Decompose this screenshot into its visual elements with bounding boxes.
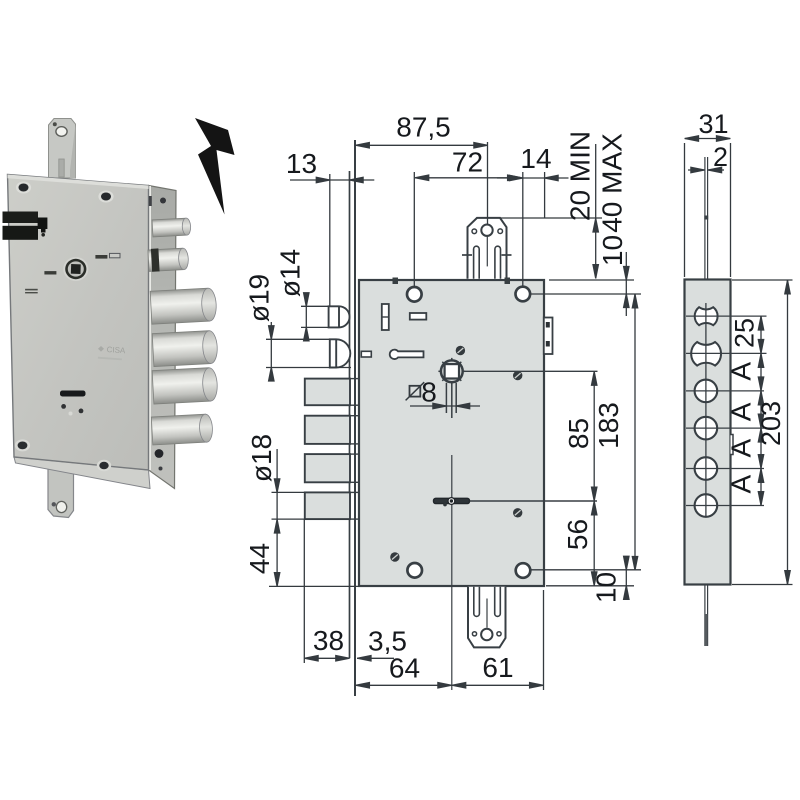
dim 31 line (685, 138, 731, 140)
extension bottom hole centreline (531, 569, 641, 571)
bottom tab centerline (486, 599, 488, 628)
photo corner screw holes (15, 182, 114, 472)
deviator bolt 1 (305, 379, 350, 406)
photo keyhole (60, 391, 86, 397)
extension body right edge (544, 172, 546, 218)
svg-text:203: 203 (756, 401, 786, 446)
photo deadbolt pin 2 (152, 330, 218, 366)
dim 10 bottom line (625, 556, 627, 600)
svg-text:40 MAX: 40 MAX (597, 133, 628, 233)
photo latch bolt 1 (152, 218, 191, 237)
svg-text:ø14: ø14 (275, 249, 306, 297)
extension top hole centreline (530, 293, 641, 295)
svg-text:87,5: 87,5 (396, 112, 451, 143)
side faceplate below body (704, 585, 706, 647)
svg-text:72: 72 (452, 147, 483, 178)
dim 8 line (410, 405, 480, 407)
svg-text:64: 64 (389, 653, 420, 684)
dim 13 line (290, 179, 374, 181)
svg-text:8: 8 (421, 377, 437, 408)
svg-text:61: 61 (482, 652, 513, 683)
dim 20min/40max line (595, 144, 597, 279)
bottom tab small holes (472, 632, 476, 636)
latch D-bolt lower (dia 19) (330, 339, 351, 367)
latch D-bolt upper (dia 14) (329, 306, 350, 327)
side hole 2 (latch, barrel shape) (691, 342, 721, 366)
photo side face details (155, 449, 164, 458)
dim 203 line (787, 280, 789, 585)
svg-text:ø18: ø18 (246, 434, 277, 482)
follower ring (441, 360, 463, 382)
side hole 5 (695, 457, 718, 480)
photo of lock (3, 119, 219, 518)
svg-text:14: 14 (520, 143, 551, 174)
dim 87,5 line (355, 144, 488, 146)
extension body top edge (549, 279, 634, 281)
faceplate outer line (354, 140, 356, 696)
svg-text:20 MIN: 20 MIN (564, 131, 595, 221)
svg-text:25: 25 (730, 318, 760, 348)
dim 10 top line (625, 252, 627, 316)
photo deadbolt pin 4 (151, 414, 213, 445)
bolt guide lines across faceplate (350, 379, 359, 519)
front view drawing (305, 140, 598, 696)
extension bolt left edge down (303, 519, 305, 663)
photo bottom tab (48, 469, 74, 518)
side notch on right edge (731, 435, 734, 455)
lightning bolt symbol (195, 118, 235, 215)
dim 72 line (415, 177, 522, 179)
svg-text:A: A (726, 475, 757, 494)
leader 3,5 (357, 657, 394, 659)
screw head upper (456, 346, 465, 355)
top tab centerline (486, 236, 488, 266)
lock body plate (359, 280, 544, 586)
svg-text:31: 31 (698, 109, 728, 139)
dim 64/61 line (355, 684, 543, 686)
follower square spindle hole (445, 364, 459, 378)
photo deadbolt pin 1 (150, 288, 217, 324)
spindle shaft lines below follower (446, 383, 456, 418)
side latch keeper on right edge (544, 318, 553, 355)
dim dia19 line (270, 322, 272, 381)
faceplate inner line (349, 171, 351, 658)
dim 25 and A chain line (760, 316, 762, 505)
top tab slots (474, 246, 480, 279)
corner hole top-right (516, 287, 531, 302)
svg-text:56: 56 (562, 519, 593, 550)
svg-text:A: A (726, 362, 757, 381)
svg-text:13: 13 (286, 148, 317, 179)
dim 183 line (634, 294, 636, 570)
dim 85/56 line (593, 371, 595, 586)
extension body bottom left (269, 585, 359, 587)
top tab min-position ticks (462, 254, 472, 256)
svg-text:A: A (726, 438, 757, 457)
extension latch left edge (329, 174, 331, 306)
dimensions (266, 136, 793, 690)
svg-text:38: 38 (313, 625, 344, 656)
svg-text:CISA: CISA (106, 345, 126, 355)
screw head bottom-left (390, 552, 399, 561)
vertical slot part (382, 304, 389, 330)
bottom tab slots (474, 587, 480, 617)
extension top-left hole (413, 172, 415, 287)
top mounting tab of photo (49, 119, 76, 179)
small slot near left edge (361, 351, 371, 357)
photo latch bolt 2 (148, 247, 189, 272)
dim dia18 and 44 line (276, 449, 278, 586)
double-bit key hub (434, 498, 470, 503)
deviator bolt 2 (305, 416, 350, 444)
cylinder axis extension (487, 142, 489, 225)
follower centreline to right (463, 370, 598, 372)
side hole 4 (695, 417, 718, 440)
small rectangular slot (410, 313, 427, 320)
dim 38 line (304, 657, 349, 659)
photo bottom edge face (14, 457, 150, 489)
svg-text:10: 10 (591, 572, 622, 603)
svg-text:10: 10 (597, 235, 628, 266)
extension tab top level (500, 217, 602, 219)
side faceplate above body (704, 157, 706, 280)
top tab screw hole (481, 225, 492, 236)
svg-text:44: 44 (244, 543, 275, 574)
side holes horizontal centrelines (686, 316, 767, 505)
svg-text:183: 183 (593, 402, 624, 449)
photo body side face (149, 186, 177, 489)
photo follower hub (63, 257, 88, 281)
notches on body top edge (393, 278, 399, 285)
photo deadbolt pin 3 (152, 367, 218, 404)
top tab small holes (472, 229, 477, 234)
top strike tab (468, 218, 507, 279)
svg-text:ø19: ø19 (244, 274, 275, 322)
side hole 6 (695, 494, 718, 517)
dimension texts (244, 109, 787, 683)
screw head right-mid (513, 371, 522, 380)
key slot part (390, 350, 424, 359)
photo CISA logo (98, 346, 104, 352)
photo black plates on left (3, 212, 39, 224)
square-8 symbol (410, 386, 421, 397)
bottom strike tab (468, 587, 506, 648)
photo front face (8, 175, 149, 471)
svg-text:85: 85 (563, 418, 594, 449)
corner hole top-left (407, 287, 422, 302)
extension body bottom right (546, 585, 634, 587)
extension body right edge down (543, 590, 545, 690)
side hole 1 (latch, barrel shape) (695, 307, 718, 325)
corner hole bottom-right (516, 563, 531, 578)
key hub centreline to right (470, 500, 597, 502)
extension top-right hole (522, 172, 524, 286)
photo small stamped marks (44, 271, 56, 274)
side hole 3 (695, 380, 718, 403)
svg-text:2: 2 (713, 142, 728, 172)
dim dia14 line (305, 294, 307, 340)
svg-text:A: A (726, 402, 757, 421)
dim 14 line (497, 177, 569, 179)
deviator bolt 4 (305, 492, 350, 519)
side holes vertical centreline (705, 303, 707, 518)
vertical centre axis (451, 455, 453, 690)
corner hole bottom-left (407, 563, 422, 578)
screw head right-lower (513, 508, 522, 517)
deviator bolt 3 (305, 454, 350, 482)
dim 2 line (688, 169, 704, 171)
bottom tab screw hole (481, 629, 492, 640)
side view drawing (685, 157, 767, 646)
side body strip (685, 280, 731, 585)
